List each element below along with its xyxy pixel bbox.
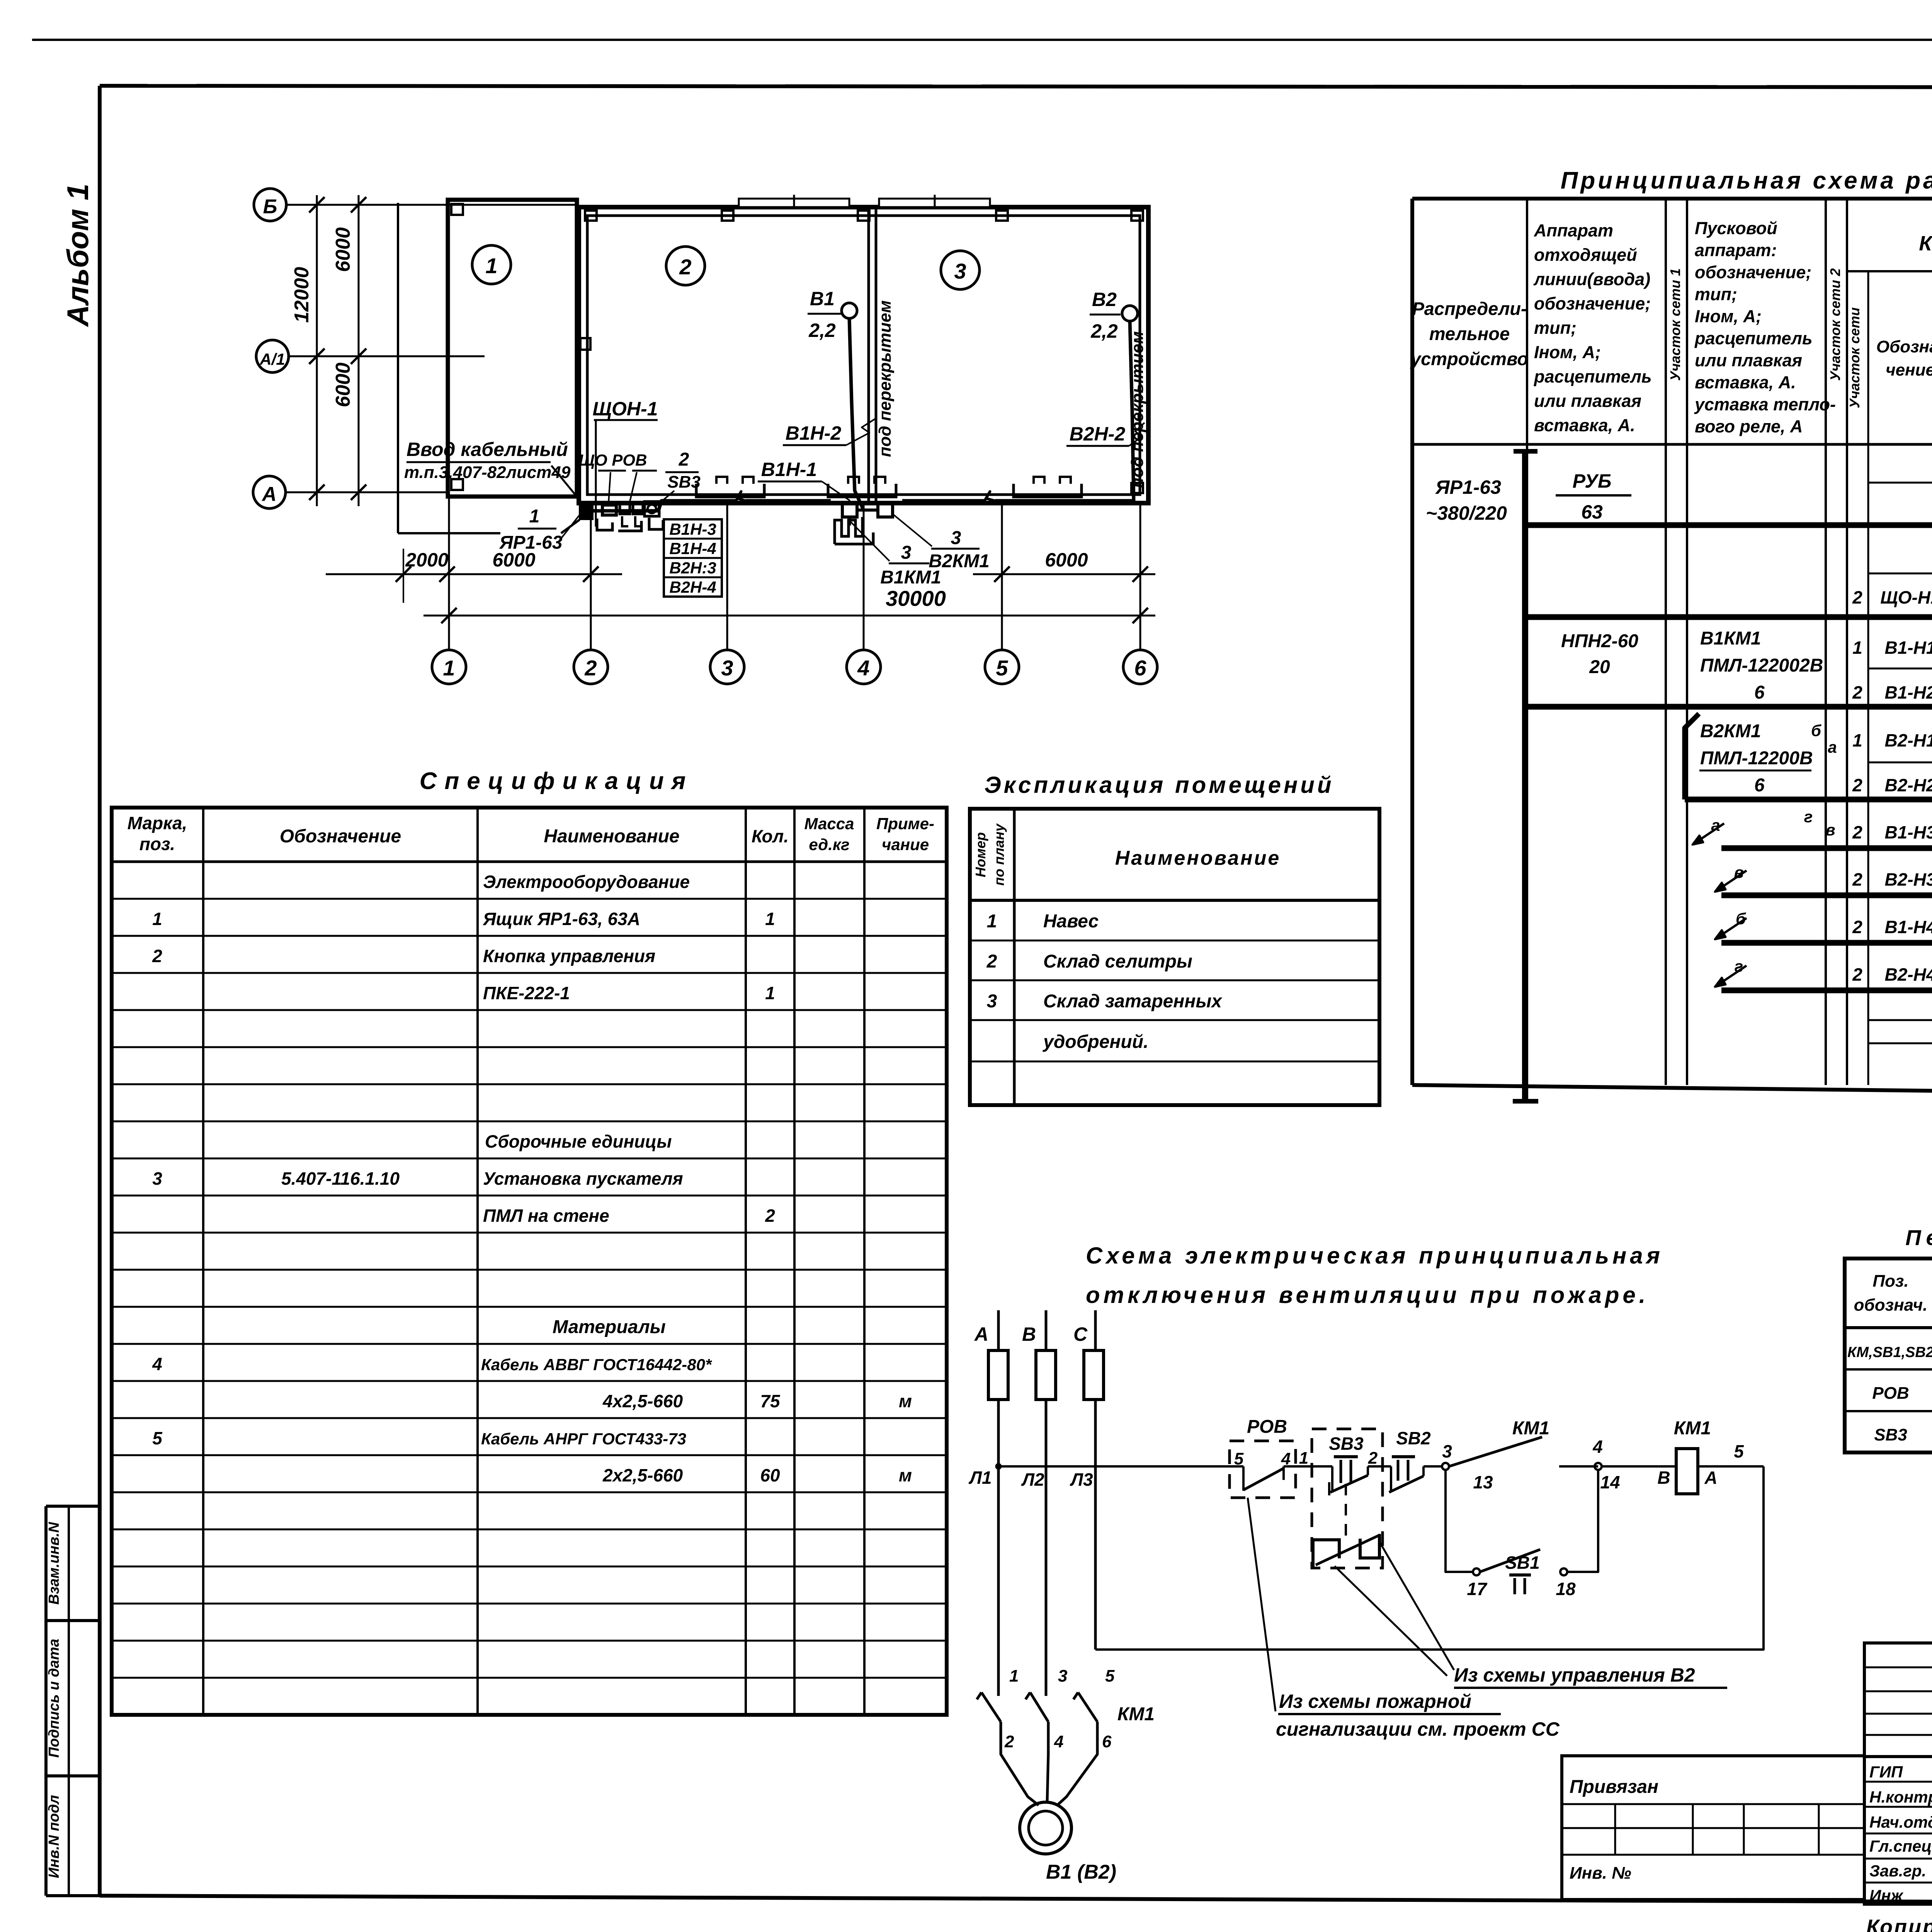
svg-text:тип;: тип; — [1695, 284, 1737, 304]
svg-text:2х2,5-660: 2х2,5-660 — [602, 1465, 683, 1485]
relay contact РОВ (dashed box) — [1230, 1417, 1296, 1498]
svg-text:Гл.спец: Гл.спец — [1869, 1837, 1932, 1855]
svg-text:2: 2 — [765, 1206, 775, 1226]
svg-text:Л2: Л2 — [1021, 1469, 1044, 1490]
svg-text:обозначение;: обозначение; — [1534, 294, 1651, 313]
svg-text:Приме-: Приме- — [876, 815, 934, 833]
svg-text:2: 2 — [1852, 682, 1862, 702]
svg-text:4х2,5-660: 4х2,5-660 — [602, 1391, 683, 1411]
fan В2 with label — [1090, 289, 1138, 342]
svg-text:5: 5 — [996, 656, 1008, 680]
svg-text:2: 2 — [679, 449, 689, 470]
svg-text:В2Н-4: В2Н-4 — [669, 578, 716, 596]
wire coil to right with pin 5 — [1698, 1441, 1764, 1466]
svg-text:5: 5 — [152, 1428, 163, 1448]
room number circle 3 — [941, 251, 980, 289]
svg-text:1: 1 — [1852, 638, 1862, 658]
svg-text:18: 18 — [1556, 1579, 1576, 1599]
svg-text:В2КМ1: В2КМ1 — [929, 551, 990, 571]
svg-text:14: 14 — [1600, 1472, 1620, 1492]
svg-text:Л3: Л3 — [1070, 1469, 1093, 1490]
node 3 — [1442, 1441, 1452, 1470]
svg-text:4: 4 — [857, 656, 869, 680]
column axis extension lines — [449, 497, 1140, 650]
svg-text:б: б — [1811, 721, 1821, 740]
svg-text:2: 2 — [1852, 587, 1862, 607]
wire В2Н-2 riser — [1130, 321, 1134, 501]
wire РОВ to SБ3 — [1284, 1465, 1332, 1468]
svg-text:В1-Н3: В1-Н3 — [1885, 822, 1932, 842]
svg-text:SВ3: SВ3 — [1874, 1425, 1907, 1444]
svg-text:В: В — [1022, 1323, 1036, 1345]
svg-text:17: 17 — [1467, 1579, 1488, 1599]
svg-text:Сборочные единицы: Сборочные единицы — [485, 1131, 672, 1151]
svg-text:1: 1 — [765, 983, 775, 1003]
svg-text:поз.: поз. — [139, 834, 175, 854]
svg-text:обознач.: обознач. — [1854, 1296, 1928, 1315]
svg-text:Распредели-: Распредели- — [1412, 298, 1527, 319]
svg-text:В2-Н2: В2-Н2 — [1885, 775, 1932, 795]
svg-text:В2-Н4: В2-Н4 — [1885, 964, 1932, 985]
dimension line 2000 6000 (left) — [326, 549, 622, 603]
svg-text:вставка, А.: вставка, А. — [1534, 415, 1635, 435]
floor plan: axis circle Б — [254, 189, 577, 221]
svg-text:А: А — [261, 483, 277, 505]
svg-text:Навес: Навес — [1043, 911, 1099, 932]
svg-text:ЩО-Н1: ЩО-Н1 — [1880, 587, 1932, 607]
svg-text:м: м — [899, 1465, 912, 1485]
svg-text:6000: 6000 — [492, 549, 535, 571]
svg-text:В1: В1 — [810, 288, 835, 310]
note Из схемы управления В2 — [1454, 1664, 1727, 1688]
svg-text:КМ,SВ1,SВ2: КМ,SВ1,SВ2 — [1847, 1344, 1932, 1361]
cable entry line from ТП — [398, 203, 580, 533]
feeder thick line ЩО row bottom — [1525, 614, 1932, 620]
phase С supply line — [1094, 1310, 1097, 1650]
svg-text:3: 3 — [987, 991, 997, 1012]
label В1Н-2 with leader — [783, 418, 876, 445]
svg-text:а: а — [1711, 816, 1720, 834]
svg-text:ед.кг: ед.кг — [809, 835, 849, 854]
label 2 / SБ3 with leader — [655, 449, 701, 507]
device SБ3 button — [645, 502, 659, 516]
svg-text:Принципиальная схема распред: Принципиальная схема распределительной с… — [1561, 167, 1932, 194]
svg-text:6: 6 — [1134, 656, 1146, 680]
svg-text:чание: чание — [882, 835, 929, 854]
wire В1Н-2 riser — [849, 318, 864, 510]
svg-text:Ввод кабельный: Ввод кабельный — [406, 439, 568, 460]
svg-text:вставка, А.: вставка, А. — [1695, 372, 1796, 392]
svg-text:2: 2 — [1852, 775, 1862, 795]
coil КМ1 — [1657, 1418, 1717, 1494]
svg-text:Н.контр.: Н.контр. — [1869, 1788, 1932, 1806]
motor В1 (В2) — [1020, 1802, 1116, 1883]
outer border top line — [32, 39, 1932, 41]
svg-text:г: г — [1735, 957, 1743, 975]
pushbutton SБ1 — [1480, 1549, 1540, 1594]
svg-text:75: 75 — [760, 1391, 781, 1411]
svg-text:г: г — [1804, 808, 1813, 826]
svg-text:Номер: Номер — [973, 832, 988, 878]
main cable run below building — [591, 492, 1134, 511]
dimension line 30000 — [423, 586, 1155, 623]
svg-text:уставка тепло-: уставка тепло- — [1694, 395, 1836, 414]
label 1 / ЯР1-63 — [498, 506, 580, 553]
fuse FU2 — [1036, 1350, 1056, 1400]
svg-text:В1Н-3: В1Н-3 — [669, 520, 716, 538]
leader from РОВ to fire note — [1248, 1498, 1276, 1711]
svg-text:3: 3 — [901, 543, 912, 563]
svg-text:отключения вентиляции при п: отключения вентиляции при пожаре. — [1086, 1282, 1649, 1308]
svg-text:Участок сети 2: Участок сети 2 — [1827, 268, 1843, 381]
svg-text:Пусковой: Пусковой — [1695, 218, 1777, 238]
label В1КМ1 ПМЛ-122002В 6 — [1700, 628, 1823, 703]
svg-text:Инв. №: Инв. № — [1570, 1864, 1631, 1883]
svg-text:В2-Н3: В2-Н3 — [1885, 869, 1932, 889]
svg-text:В2Н-2: В2Н-2 — [1070, 423, 1126, 445]
branch SБ1 left drop from node 3 — [1446, 1470, 1474, 1572]
vertical dimension line 12000 — [291, 195, 325, 506]
svg-text:13: 13 — [1473, 1472, 1493, 1492]
svg-text:Обозначение: Обозначение — [280, 826, 401, 847]
svg-text:5: 5 — [1105, 1667, 1115, 1685]
svg-text:Кабель АВВГ ГОСТ16442-80*: Кабель АВВГ ГОСТ16442-80* — [481, 1355, 712, 1374]
SБ3 auxiliary contact (solid) — [1313, 1534, 1380, 1567]
svg-text:Схема электрическая принципи: Схема электрическая принципиальная — [1086, 1243, 1663, 1269]
svg-text:КМ1: КМ1 — [1117, 1704, 1155, 1725]
svg-text:ГИП: ГИП — [1869, 1763, 1903, 1781]
svg-text:В2Н:3: В2Н:3 — [669, 559, 716, 577]
svg-text:Альбом 1: Альбом 1 — [61, 184, 95, 327]
svg-text:ЯР1-63: ЯР1-63 — [1435, 476, 1501, 498]
svg-text:Б: Б — [263, 196, 277, 218]
svg-text:ПМЛ на стене: ПМЛ на стене — [483, 1206, 609, 1226]
svg-text:ЩОН-1: ЩОН-1 — [593, 398, 658, 420]
specification rows — [152, 872, 912, 1485]
svg-text:КМ1: КМ1 — [1674, 1418, 1711, 1439]
column circle 1 — [432, 650, 466, 684]
svg-text:т.п.3.407-82лист49: т.п.3.407-82лист49 — [404, 463, 571, 482]
svg-text:удобрений.: удобрений. — [1043, 1032, 1148, 1052]
svg-text:расцепитель: расцепитель — [1694, 328, 1813, 348]
phase В supply line — [1045, 1310, 1048, 1696]
label ЩОН-1 with leader — [593, 398, 658, 527]
fuse FU1 — [988, 1350, 1008, 1400]
feeder thick line В1 row bottom — [1525, 704, 1932, 710]
explication header — [973, 823, 1281, 886]
column circle 3 — [710, 650, 744, 684]
label В1Н-1 with leader — [758, 459, 850, 501]
svg-text:1: 1 — [1009, 1667, 1019, 1685]
distribution table grid — [1412, 199, 1932, 1099]
svg-text:НПН2-60: НПН2-60 — [1561, 631, 1638, 651]
svg-text:Кабель АНРГ ГОСТ433-73: Кабель АНРГ ГОСТ433-73 — [481, 1430, 686, 1448]
svg-text:Установка пускателя: Установка пускателя — [483, 1168, 683, 1189]
svg-text:4: 4 — [1592, 1437, 1603, 1457]
note Копировал — [1866, 1915, 1932, 1932]
svg-text:Взам.инв.N: Взам.инв.N — [46, 1522, 62, 1605]
svg-text:сигнализации см. проект СС: сигнализации см. проект СС — [1276, 1718, 1560, 1740]
svg-text:Участок сети: Участок сети — [1847, 307, 1862, 408]
label 3 / В1КМ1 — [850, 521, 941, 588]
svg-text:РУБ: РУБ — [1573, 470, 1612, 492]
node 18 — [1556, 1568, 1576, 1599]
louver marks on bottom wall — [696, 477, 1082, 497]
svg-text:А: А — [1704, 1468, 1717, 1488]
svg-text:1: 1 — [765, 909, 775, 929]
svg-text:Аппарат: Аппарат — [1534, 221, 1613, 240]
dimension line 6000 (right) — [973, 549, 1155, 582]
svg-text:3: 3 — [1058, 1667, 1067, 1685]
element list rows — [1847, 1341, 1932, 1444]
svg-text:4: 4 — [1054, 1732, 1063, 1751]
svg-text:1: 1 — [443, 656, 455, 680]
svg-text:Материалы: Материалы — [553, 1317, 666, 1337]
svg-text:чение: чение — [1886, 361, 1932, 379]
vertical dimension line 6000+6000 — [332, 195, 366, 506]
svg-text:обозначение;: обозначение; — [1695, 262, 1811, 282]
svg-text:РОВ: РОВ — [1247, 1417, 1287, 1437]
svg-text:расцепитель: расцепитель — [1534, 367, 1652, 386]
svg-text:Кнопка управления: Кнопка управления — [483, 946, 655, 966]
device ЩО box — [602, 505, 616, 515]
svg-text:2: 2 — [1852, 869, 1862, 889]
title block: signature rows — [1864, 1757, 1932, 1905]
svg-text:2: 2 — [584, 656, 597, 680]
svg-text:1: 1 — [152, 909, 162, 929]
device cluster at building corner: ЯР1-63 box — [580, 503, 592, 519]
note Из схемы пожарной сигнализации — [1276, 1690, 1560, 1740]
svg-text:тельное: тельное — [1429, 323, 1510, 344]
svg-text:Участок сети 1: Участок сети 1 — [1667, 268, 1683, 381]
fuse FU3 — [1084, 1350, 1104, 1400]
svg-text:Марка,: Марка, — [128, 813, 187, 833]
svg-text:Инж: Инж — [1869, 1886, 1904, 1905]
specification header texts — [128, 813, 934, 854]
svg-text:а: а — [1828, 738, 1837, 756]
column circle 4 — [847, 650, 881, 684]
svg-text:тип;: тип; — [1534, 318, 1577, 338]
gate opening room 2 — [739, 195, 849, 209]
svg-text:Инв.N подл: Инв.N подл — [46, 1795, 62, 1878]
wire node4 to coil — [1602, 1465, 1676, 1468]
svg-text:2000: 2000 — [405, 549, 448, 571]
left stamp strip boxes — [46, 1506, 100, 1896]
label РУБ/63 — [1556, 470, 1631, 523]
svg-text:6: 6 — [1754, 682, 1765, 703]
svg-text:6000: 6000 — [1045, 549, 1088, 571]
svg-text:В: В — [1657, 1468, 1670, 1488]
arrow row В2-Н4 — [1715, 957, 1932, 991]
svg-text:по плану: по плану — [991, 823, 1007, 886]
svg-text:устройство: устройство — [1410, 349, 1528, 369]
svg-text:2: 2 — [1852, 822, 1862, 842]
svg-text:Перечень элементов принципиаль: Перечень элементов принципиальной схемы — [1905, 1225, 1932, 1250]
svg-text:А/1: А/1 — [259, 350, 285, 368]
svg-text:4: 4 — [152, 1354, 162, 1374]
phase А supply line — [997, 1310, 1000, 1696]
axis circle А — [253, 476, 448, 509]
fan В1 with label — [808, 288, 857, 341]
svg-text:1: 1 — [1852, 730, 1862, 750]
svg-text:под перекрытием: под перекрытием — [876, 300, 895, 457]
column circle 6 — [1123, 650, 1157, 684]
svg-text:Наименование: Наименование — [544, 826, 679, 847]
svg-text:Спецификация: Спецификация — [420, 768, 694, 794]
svg-text:~380/220: ~380/220 — [1426, 502, 1507, 524]
explication rows — [986, 911, 1223, 1052]
column circle 5 — [985, 650, 1019, 684]
svg-text:В2: В2 — [1092, 289, 1117, 310]
svg-text:А: А — [974, 1323, 988, 1345]
svg-text:Кабель, провод: Кабель, провод — [1919, 232, 1932, 255]
svg-text:в: в — [1825, 821, 1835, 839]
svg-text:6000: 6000 — [332, 362, 354, 407]
svg-text:3: 3 — [152, 1168, 162, 1189]
svg-text:КМ1: КМ1 — [1512, 1418, 1549, 1439]
column circle 2 — [574, 650, 608, 684]
title block: upper small grid — [1864, 1643, 1932, 1757]
arrow row В2-Н3 — [1715, 863, 1932, 896]
svg-text:60: 60 — [760, 1465, 780, 1485]
svg-text:30000: 30000 — [886, 586, 946, 611]
starter cluster В1КМ1 / В2КМ1 — [835, 502, 893, 544]
cluster wiring hooks — [597, 518, 663, 531]
explication table grid — [970, 809, 1379, 1105]
svg-text:12000: 12000 — [291, 267, 313, 323]
label ЩО РОВ with leaders — [579, 451, 657, 502]
svg-text:2: 2 — [1852, 917, 1862, 937]
svg-text:Л1: Л1 — [968, 1468, 992, 1488]
svg-text:ПМЛ-122002В: ПМЛ-122002В — [1700, 655, 1823, 676]
svg-text:Копировал: Копировал — [1866, 1915, 1932, 1932]
svg-text:SВ2: SВ2 — [1396, 1428, 1431, 1448]
svg-text:5: 5 — [1734, 1441, 1744, 1461]
svg-text:2: 2 — [986, 951, 997, 972]
feeder thick line (ввод row bottom) — [1525, 522, 1932, 528]
svg-text:3: 3 — [721, 656, 733, 680]
distribution table header texts — [1410, 218, 1932, 441]
supply bus ЯР1-63 — [1513, 451, 1538, 1101]
svg-text:В2КМ1: В2КМ1 — [1700, 721, 1761, 742]
svg-text:В1Н-1: В1Н-1 — [761, 459, 817, 480]
svg-text:1: 1 — [987, 911, 997, 932]
svg-text:ПМЛ-12200В: ПМЛ-12200В — [1700, 748, 1813, 769]
main contacts КМ1 — [977, 1692, 1155, 1725]
room number circle 2 — [666, 247, 705, 285]
svg-text:В1Н-2: В1Н-2 — [786, 422, 842, 444]
motor feeder pins 1 3 5 — [1009, 1667, 1115, 1685]
contact КМ1 (NO) — [1449, 1418, 1549, 1492]
svg-text:3: 3 — [954, 259, 966, 283]
element list header — [1854, 1272, 1932, 1315]
wall column marks — [580, 211, 1143, 493]
branch SБ1 right rise to node 4 — [1567, 1470, 1598, 1572]
svg-text:ПКЕ-222-1: ПКЕ-222-1 — [483, 983, 570, 1003]
phase labels А В С — [974, 1323, 1088, 1345]
svg-text:Из схемы управления В2: Из схемы управления В2 — [1454, 1664, 1695, 1686]
svg-text:2: 2 — [1368, 1449, 1378, 1468]
leaders to В2 control note — [1335, 1542, 1454, 1676]
svg-text:Склад затаренных: Склад затаренных — [1043, 991, 1223, 1012]
svg-text:5.407-116.1.10: 5.407-116.1.10 — [281, 1168, 400, 1189]
element list table grid — [1845, 1259, 1932, 1452]
axis circle А/1 — [256, 340, 485, 372]
svg-text:2,2: 2,2 — [1090, 320, 1118, 342]
label 3 / В2КМ1 — [893, 514, 990, 571]
svg-text:ЩО РОВ: ЩО РОВ — [579, 451, 647, 469]
partition wall between rooms 2 and 3 — [869, 207, 876, 503]
control wire Л1 horizontal — [998, 1465, 1243, 1468]
svg-text:2: 2 — [1852, 964, 1862, 985]
svg-text:Привязан: Привязан — [1570, 1777, 1658, 1797]
svg-text:Поз.: Поз. — [1872, 1272, 1908, 1291]
label НПН2-60 / 20 — [1561, 631, 1638, 677]
label Ввод кабельный — [404, 439, 580, 500]
room number circle 1 — [472, 245, 511, 284]
svg-text:вого реле, А: вого реле, А — [1695, 417, 1803, 436]
svg-text:или плавкая: или плавкая — [1695, 350, 1802, 370]
svg-text:Зав.гр.: Зав.гр. — [1869, 1862, 1926, 1880]
svg-text:Склад селитры: Склад селитры — [1043, 951, 1192, 972]
pushbutton block SБ3 (dashed box) — [1312, 1429, 1391, 1568]
node Л1 — [995, 1463, 1002, 1469]
svg-text:линии(ввода): линии(ввода) — [1533, 269, 1650, 289]
arrow row В1-Н3 — [1692, 808, 1932, 848]
svg-text:20: 20 — [1589, 657, 1610, 677]
svg-text:Кол.: Кол. — [752, 826, 789, 846]
svg-text:63: 63 — [1581, 501, 1603, 523]
svg-text:в: в — [1734, 863, 1743, 881]
svg-text:3: 3 — [951, 528, 961, 548]
arrow row В1-Н4 — [1715, 910, 1932, 943]
specification table grid — [112, 808, 947, 1715]
gate opening room 3 — [879, 195, 990, 209]
wire 14 to node 4 — [1559, 1465, 1598, 1468]
svg-text:под перекрытием: под перекрытием — [1128, 331, 1147, 488]
svg-text:1: 1 — [529, 506, 540, 527]
node 17 — [1467, 1568, 1488, 1599]
rows В2-Н1 В2-Н2 texts — [1852, 713, 1932, 795]
svg-text:6: 6 — [1102, 1732, 1112, 1751]
svg-text:Электрооборудование: Электрооборудование — [483, 872, 690, 892]
svg-text:Экспликация помещений: Экспликация помещений — [984, 772, 1334, 798]
svg-text:С: С — [1073, 1323, 1088, 1345]
pushbutton SБ2 — [1389, 1428, 1442, 1492]
pins 2 4 6 — [1004, 1732, 1112, 1751]
svg-text:3: 3 — [1442, 1441, 1452, 1461]
svg-text:Подпись и дата: Подпись и дата — [46, 1639, 62, 1758]
svg-text:отходящей: отходящей — [1534, 245, 1637, 265]
svg-text:Iном, А;: Iном, А; — [1534, 342, 1601, 362]
motor leads — [1001, 1722, 1097, 1805]
rows В1-Н1 В1-Н2 texts — [1852, 628, 1932, 702]
svg-text:В1-Н2: В1-Н2 — [1885, 682, 1932, 702]
svg-text:2,2: 2,2 — [808, 320, 836, 341]
labels Л1 Л2 Л3 — [968, 1468, 1093, 1490]
building sections 2-3 outer walls — [579, 207, 1148, 503]
svg-text:аппарат:: аппарат: — [1695, 240, 1777, 260]
привязан box — [1562, 1756, 1864, 1900]
svg-text:Нач.отд: Нач.отд — [1869, 1813, 1932, 1831]
svg-text:Наименование: Наименование — [1115, 847, 1281, 869]
stacked cable labels В1Н-3..В2Н-4 — [664, 519, 722, 597]
svg-text:В1-Н1: В1-Н1 — [1885, 638, 1932, 658]
building section 1 (Навес) — [448, 200, 577, 497]
node 4 — [1592, 1437, 1620, 1492]
В2КМ1 feeder branch outline — [1685, 714, 1932, 800]
svg-text:Iном, А;: Iном, А; — [1695, 306, 1762, 326]
